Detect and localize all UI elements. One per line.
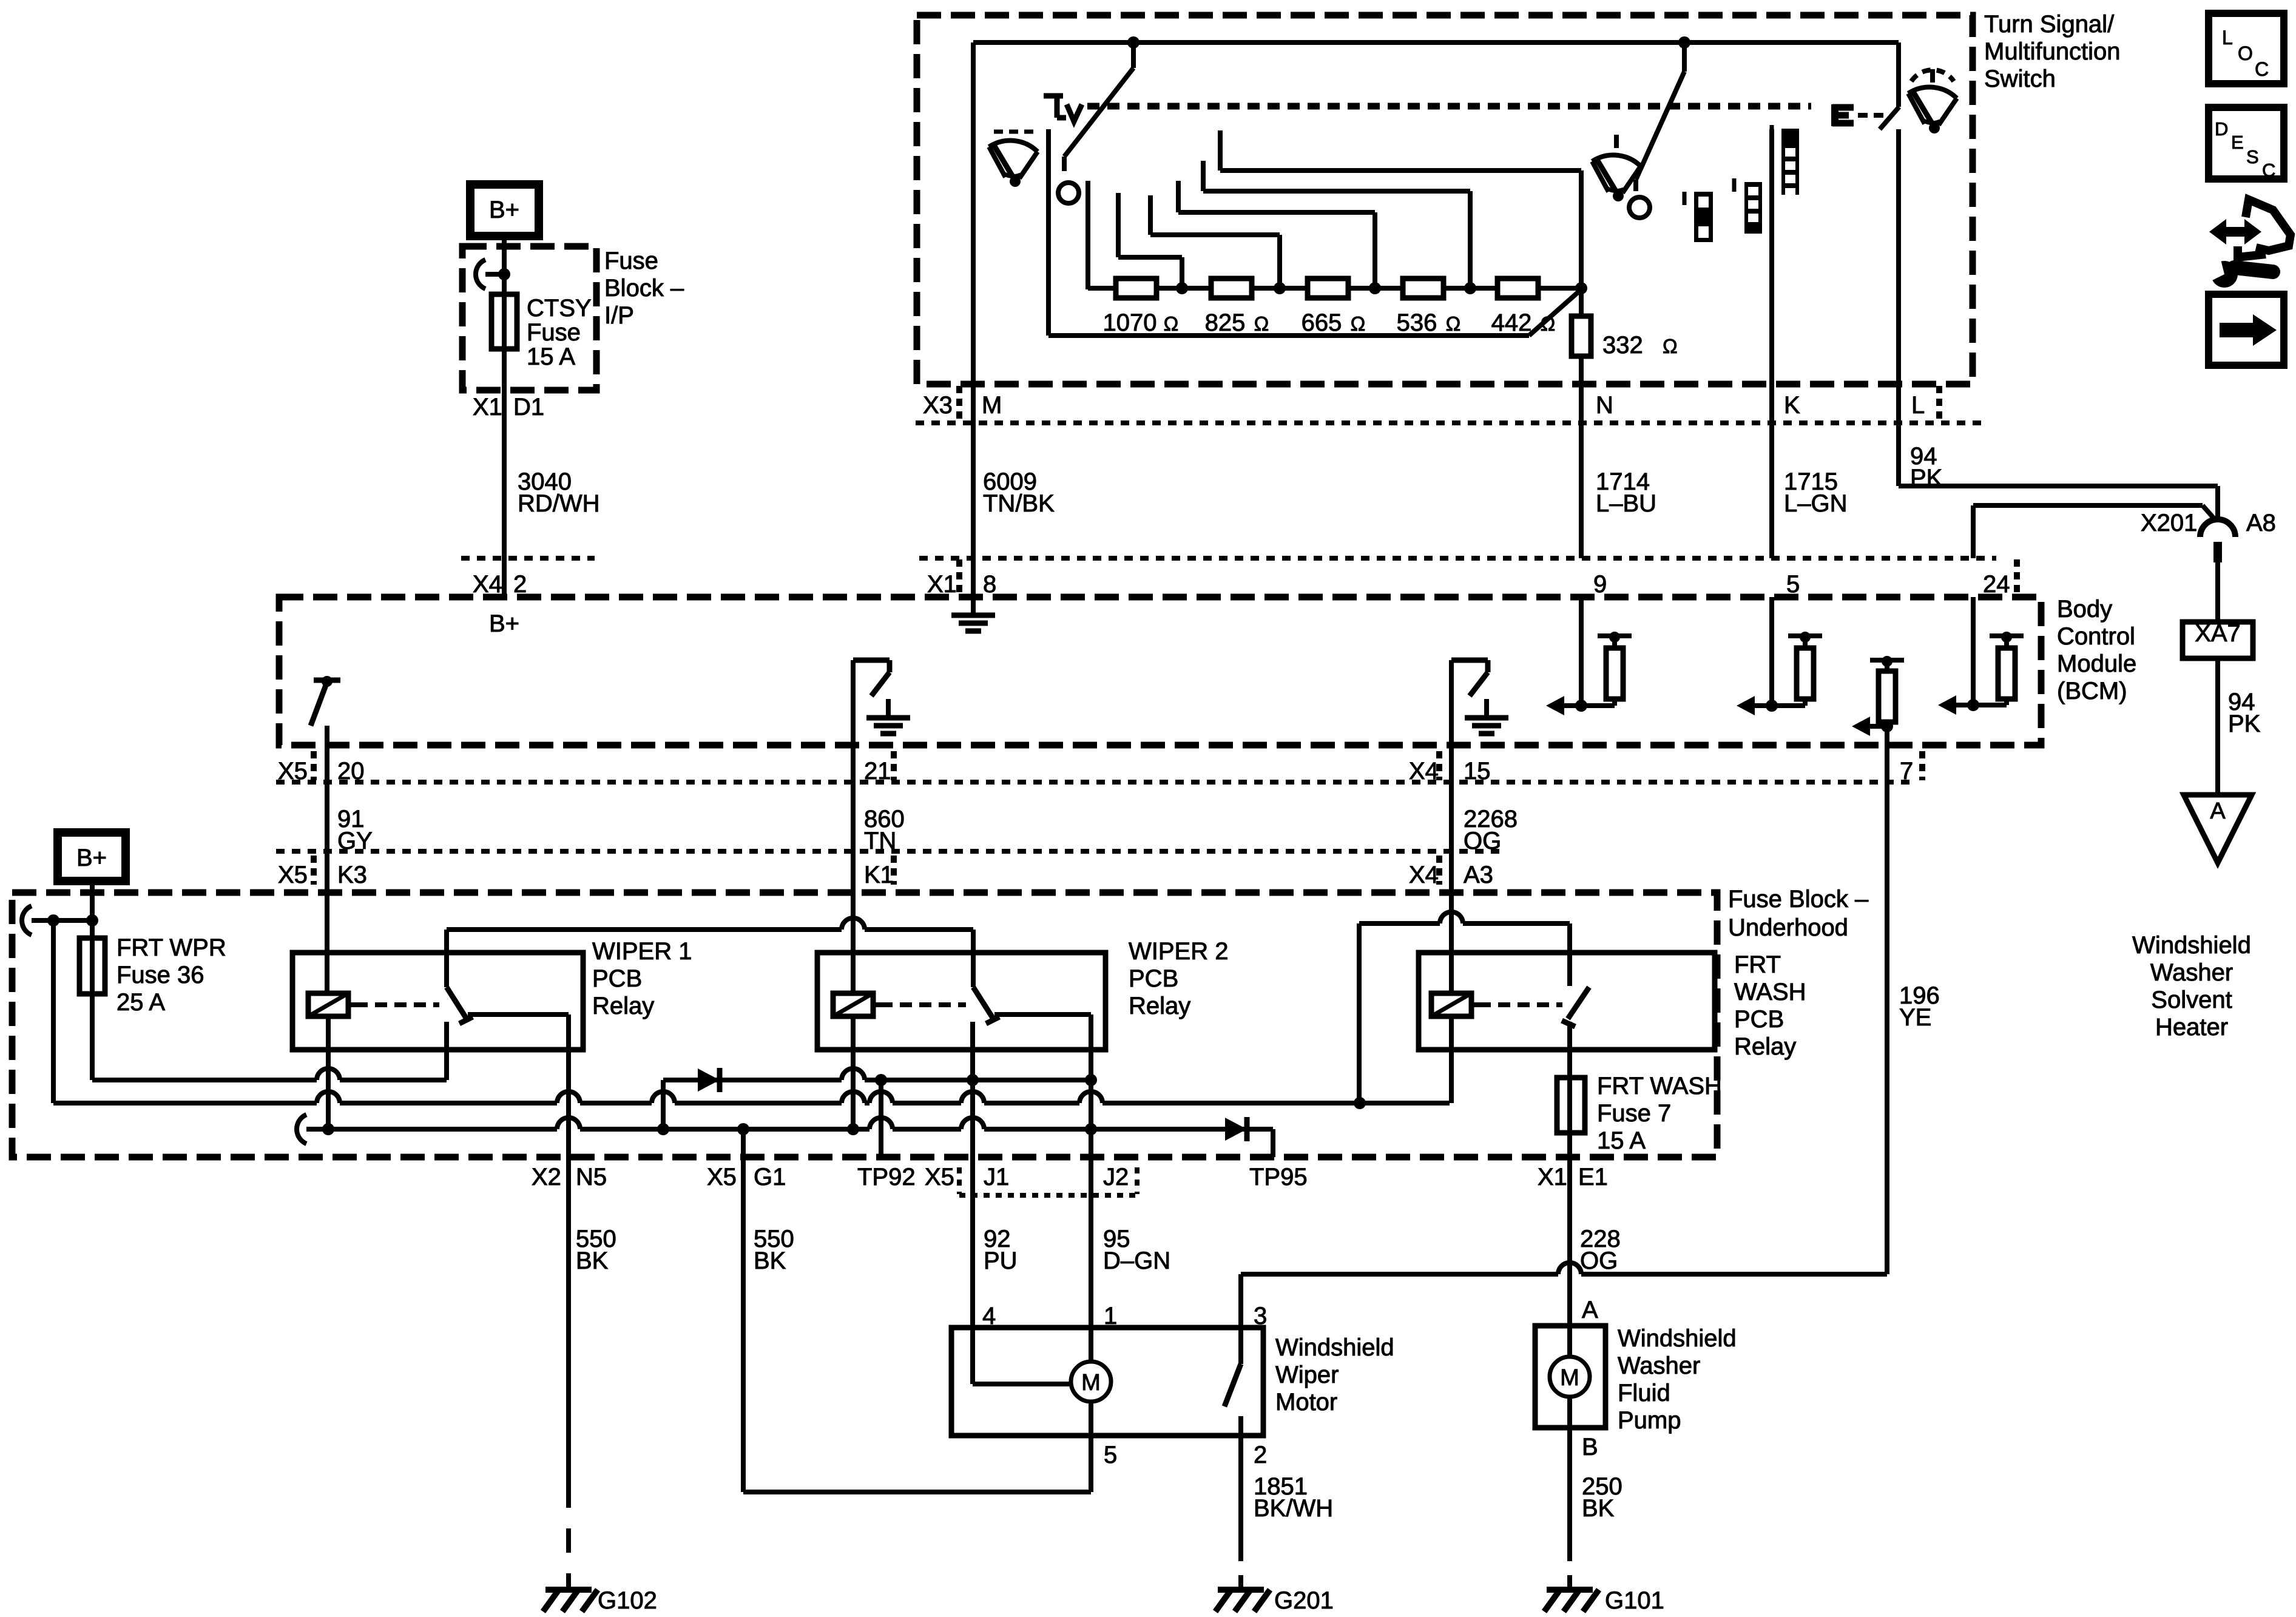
svg-text:PCB: PCB (592, 965, 642, 992)
windshield washer fluid pump box (1535, 1326, 1606, 1428)
wire A3 coil to bus B (1449, 1014, 1454, 1103)
svg-text:B+: B+ (489, 197, 519, 223)
wire motor pin5 (1089, 1436, 1093, 1492)
svg-text:9: 9 (1593, 571, 1607, 598)
connector row X5 K3 / K1 / X4 A3 (276, 851, 1505, 888)
svg-text:Fuse: Fuse (527, 319, 581, 346)
svg-text:M: M (1081, 1370, 1101, 1396)
diode D2 on bus C (1225, 1117, 1247, 1141)
connector row X5 20 / 21 / X4 15 / 7 (276, 751, 1922, 785)
connector row X1 D1 (473, 394, 544, 420)
svg-text:L: L (1911, 392, 1925, 419)
svg-text:A3: A3 (1464, 862, 1493, 888)
wire B+ to fuse block I/P (502, 236, 507, 274)
wire N5 550 BK to G102 (566, 1050, 571, 1575)
BCM input sense pin 9 (1546, 597, 1632, 715)
svg-text:15 A: 15 A (1597, 1127, 1646, 1154)
relay link wire (wiper1 to wiper2 common) (447, 918, 973, 953)
label Fuse Block - I/P (604, 248, 684, 329)
svg-text:BK: BK (754, 1247, 786, 1274)
svg-text:PCB: PCB (1734, 1006, 1784, 1033)
test point TP95 stub (1271, 1129, 1275, 1157)
wire top rail of switch (973, 40, 1899, 45)
connector hook B+ feed (22, 906, 98, 935)
svg-text:B+: B+ (76, 845, 107, 871)
wire J1 92 PU to motor pin4 (970, 1080, 975, 1328)
svg-text:A8: A8 (2246, 510, 2276, 536)
wire label 196 YE (1899, 982, 1940, 1031)
contact circle mist (1629, 197, 1650, 218)
wire diode branch (663, 1068, 1097, 1129)
svg-text:K1: K1 (864, 862, 894, 888)
svg-text:442: 442 (1491, 309, 1532, 336)
ground G102 (543, 1575, 657, 1614)
power symbol B+ (top) (470, 184, 539, 236)
svg-text:15 A: 15 A (527, 343, 575, 370)
svg-text:4: 4 (982, 1303, 996, 1329)
relay WIPER 1 PCB (292, 953, 583, 1050)
resistor 665 ohm (1302, 279, 1366, 336)
svg-text:Body: Body (2057, 596, 2112, 623)
svg-text:X1: X1 (927, 571, 957, 598)
svg-text:Fuse: Fuse (604, 248, 658, 274)
svg-text:J1: J1 (984, 1164, 1009, 1190)
dashed actuation line of rotary switch (1087, 103, 1811, 110)
windshield wiper motor box (951, 1328, 1263, 1436)
relay2 switch (973, 953, 1091, 1080)
svg-text:Ω: Ω (1164, 312, 1179, 335)
wire to XA7 (2215, 562, 2220, 622)
wire label 250 BK (1582, 1473, 1622, 1522)
pump M motor (1550, 1326, 1590, 1428)
wire bus B (B+ rail to frt wash relay) (53, 920, 1450, 1110)
svg-text:Fluid: Fluid (1618, 1380, 1670, 1406)
svg-text:M: M (982, 392, 1002, 419)
label windshield washer fluid pump (1618, 1325, 1737, 1434)
patch A3 through 1522 hop (1449, 907, 1454, 947)
svg-text:L–BU: L–BU (1596, 490, 1656, 517)
BCM input sense pin 24 (1938, 597, 2024, 715)
svg-text:Windshield: Windshield (2132, 932, 2251, 959)
svg-text:CTSY: CTSY (527, 295, 592, 322)
resistor 825 ohm (1205, 279, 1269, 336)
wire label 91 GY (337, 806, 373, 854)
svg-text:3: 3 (1254, 1303, 1267, 1329)
wire label 1851 BK/WH (1254, 1473, 1333, 1522)
svg-text:1070: 1070 (1103, 309, 1157, 336)
svg-text:PK: PK (2228, 711, 2261, 737)
BCM switch S1 (311, 676, 340, 745)
wire K3 coil to bus C (326, 1016, 331, 1129)
svg-text:Windshield: Windshield (1618, 1325, 1737, 1352)
svg-text:WASH: WASH (1734, 979, 1806, 1005)
svg-text:C: C (2255, 58, 2269, 80)
svg-text:B+: B+ (489, 610, 519, 637)
svg-text:X1: X1 (1538, 1164, 1567, 1190)
svg-text:2: 2 (1254, 1442, 1267, 1468)
wire A3 column (1449, 745, 1454, 991)
svg-text:D: D (2215, 118, 2228, 140)
wire G1 550 BK to motor pin5 (743, 1129, 1091, 1492)
switch tap contact C (1150, 195, 1286, 294)
resistor 442 ohm (1491, 279, 1556, 336)
svg-text:Fuse 7: Fuse 7 (1597, 1100, 1671, 1127)
wire K3 column (325, 745, 329, 993)
relay WIPER 2 PCB (817, 953, 1106, 1050)
svg-text:K: K (1784, 392, 1800, 419)
wire label 860 TN (864, 806, 905, 854)
svg-text:A: A (2210, 798, 2226, 824)
svg-text:Ω: Ω (1663, 335, 1678, 357)
contact block 3 (1772, 125, 1799, 197)
body control module dashed box (279, 597, 2041, 745)
svg-text:M: M (1560, 1365, 1579, 1391)
svg-text:N5: N5 (576, 1164, 607, 1190)
svg-text:Solvent: Solvent (2151, 987, 2232, 1013)
svg-text:X2: X2 (532, 1164, 561, 1190)
label Turn Signal/Multifunction Switch (1984, 11, 2121, 92)
relay1 switch (447, 953, 569, 1080)
svg-text:X5: X5 (925, 1164, 954, 1190)
svg-text:D–GN: D–GN (1103, 1247, 1170, 1274)
wire 196 YE horizontal to park switch (1241, 1263, 1887, 1281)
svg-text:L–GN: L–GN (1784, 490, 1848, 517)
wire label 92 PU (984, 1226, 1018, 1274)
svg-text:S: S (2246, 146, 2259, 167)
ground G201 (1215, 1575, 1334, 1614)
svg-text:TN/BK: TN/BK (983, 490, 1055, 517)
resistor 1070 ohm (1103, 279, 1179, 336)
label Fuse Block - Underhood (1728, 886, 1869, 941)
switch arm 1 (wiper mode selector) (1064, 36, 1140, 171)
fuse FRT WPR 36 25A (79, 920, 226, 1080)
svg-text:Ω: Ω (1541, 312, 1556, 335)
svg-text:Windshield: Windshield (1275, 1334, 1394, 1361)
contact block 1 (1684, 192, 1713, 242)
pump pin B (1582, 1434, 1598, 1460)
fuse block underhood dashed box (12, 893, 1717, 1157)
wire label 2268 OG (1464, 806, 1518, 854)
svg-text:Ω: Ω (1254, 312, 1269, 335)
svg-text:2: 2 (513, 571, 527, 598)
svg-text:X5: X5 (278, 862, 308, 888)
svg-text:Multifunction: Multifunction (1984, 38, 2121, 65)
rotary rail loop (1048, 129, 1581, 336)
diode D1 (698, 1068, 720, 1092)
svg-text:332: 332 (1602, 332, 1643, 359)
svg-text:5: 5 (1104, 1442, 1117, 1468)
relay FRT WASH PCB (1419, 953, 1715, 1050)
svg-text:XA7: XA7 (2195, 620, 2241, 647)
svg-text:Control: Control (2057, 623, 2135, 650)
fuse CTSY 15A (491, 274, 592, 558)
wire M rail (left vertical) (971, 42, 976, 614)
svg-text:E1: E1 (1578, 1164, 1608, 1190)
connector XA7 (2183, 620, 2253, 658)
svg-text:FRT: FRT (1734, 951, 1781, 978)
svg-text:K3: K3 (337, 862, 367, 888)
svg-text:WIPER 2: WIPER 2 (1129, 938, 1228, 965)
svg-text:Heater: Heater (2155, 1014, 2228, 1041)
washer switch E contact (1832, 104, 1883, 126)
svg-text:Wiper: Wiper (1275, 1362, 1339, 1388)
wire label 228 OG (1580, 1226, 1621, 1274)
wire bus A (fuse to wiper1 relay) (92, 1068, 447, 1087)
svg-text:YE: YE (1899, 1004, 1931, 1031)
svg-text:BK: BK (576, 1247, 609, 1274)
svg-text:25 A: 25 A (116, 989, 165, 1016)
resistor 536 ohm (1397, 279, 1461, 336)
svg-text:Pump: Pump (1618, 1407, 1681, 1434)
svg-text:X5: X5 (707, 1164, 737, 1190)
svg-text:Motor: Motor (1275, 1389, 1337, 1416)
svg-text:N: N (1596, 392, 1613, 419)
motor pin labels 5 2 (1104, 1442, 1267, 1468)
svg-text:PCB: PCB (1129, 965, 1178, 992)
contact block 2 (1734, 178, 1762, 234)
switch tap contact E (1203, 161, 1476, 294)
svg-text:X4: X4 (1409, 862, 1439, 888)
svg-text:536: 536 (1397, 309, 1437, 336)
motor pin labels 4 1 3 (982, 1303, 1267, 1329)
svg-text:X4: X4 (473, 571, 502, 598)
svg-text:8: 8 (983, 571, 996, 598)
svg-text:WIPER 1: WIPER 1 (592, 938, 692, 965)
relay3 switch (1562, 923, 1589, 1078)
connector row X3 M N K L (916, 386, 1984, 423)
washer switch arm (1880, 42, 1899, 129)
svg-text:Ω: Ω (1446, 312, 1461, 335)
contact circle OFF (1058, 183, 1079, 203)
svg-text:X1: X1 (473, 394, 502, 420)
svg-text:G101: G101 (1605, 1587, 1664, 1614)
motor M winding (973, 1328, 1111, 1436)
svg-text:PU: PU (984, 1247, 1018, 1274)
svg-text:665: 665 (1302, 309, 1342, 336)
wire K1 column (851, 745, 856, 993)
wire label 1714 L-BU (1596, 468, 1656, 517)
wire K1 coil to bus C (851, 1016, 856, 1129)
svg-text:OG: OG (1580, 1247, 1618, 1274)
wire L column (1896, 129, 1901, 486)
svg-text:L: L (2222, 27, 2233, 49)
pump pin A (1582, 1297, 1598, 1323)
svg-text:Module: Module (2057, 650, 2136, 677)
BCM switch S3 with ground (1451, 660, 1508, 745)
wire label 1715 L-GN (1784, 468, 1848, 517)
inline connector X201 A8 (2141, 510, 2276, 562)
svg-text:G102: G102 (598, 1587, 657, 1614)
svg-text:Washer: Washer (1618, 1352, 1700, 1379)
wire bus C (coil return rail) (297, 1115, 1273, 1144)
delay symbol (intermittent wiper timer) (1044, 96, 1082, 121)
BCM switch S2 with ground (853, 660, 910, 745)
label WIPER 1 PCB Relay (592, 938, 692, 1019)
wire K column in switch (1769, 129, 1774, 558)
svg-text:J2: J2 (1103, 1164, 1129, 1190)
svg-text:RD/WH: RD/WH (518, 490, 600, 517)
svg-text:X3: X3 (923, 392, 953, 419)
fuse block I/P dashed box (462, 246, 596, 390)
svg-text:Turn Signal/: Turn Signal/ (1984, 11, 2115, 38)
svg-text:Fuse Block –: Fuse Block – (1728, 886, 1869, 913)
resistor 332 ohm (1572, 289, 1678, 558)
motor park switch (1224, 1274, 1241, 1436)
patch K1 through 1532 hop (851, 915, 856, 947)
connector row X1 8 / 9 / 5 / 24 (919, 558, 2017, 598)
BCM input sense pin 5 (1737, 597, 1822, 715)
wire label 6009 TN/BK (983, 468, 1055, 517)
svg-text:Underhood: Underhood (1728, 914, 1848, 941)
icon box arrow right (2209, 294, 2284, 365)
label Body Control Module (BCM) (2057, 596, 2136, 704)
svg-text:I/P: I/P (604, 302, 634, 329)
switch tap contact B (1118, 193, 1188, 294)
svg-text:Washer: Washer (2150, 959, 2233, 986)
icon arrows and wrench (2206, 200, 2291, 288)
icon box DESC (2209, 107, 2284, 181)
svg-text:(BCM): (BCM) (2057, 678, 2127, 704)
wire label 3040 RD/WH (518, 468, 600, 517)
wiper icon (low/high) (1592, 135, 1641, 201)
switch arm 2 (mist) (1636, 36, 1690, 191)
svg-text:24: 24 (1983, 571, 2010, 598)
wiper icon (intermittent, left) (989, 132, 1038, 187)
label windshield wiper motor (1275, 1334, 1394, 1416)
ground G101 (1544, 1575, 1664, 1614)
BCM output pin 7 (196 YE driver) (1852, 656, 1904, 745)
wire label 94 PK (L) (1910, 443, 1943, 491)
label windshield washer solvent heater (2132, 932, 2251, 1041)
wire 250 BK to G101 (1567, 1428, 1572, 1578)
washer icon (1908, 69, 1957, 133)
wire 94 PK branch to BCM 24 (1973, 505, 2216, 558)
svg-text:X201: X201 (2141, 510, 2197, 536)
wire label 550 BK (N5) (576, 1226, 616, 1274)
test point TP92 stub (879, 1080, 883, 1157)
svg-text:E: E (2231, 132, 2244, 153)
connector hook at CTSY fuse feed (476, 260, 510, 289)
svg-text:BK/WH: BK/WH (1254, 1495, 1333, 1522)
svg-text:BK: BK (1582, 1495, 1615, 1522)
label FRT WASH PCB Relay (1734, 951, 1806, 1060)
wire B+ into fuse block (90, 881, 95, 920)
svg-text:B: B (1582, 1434, 1598, 1460)
svg-text:G201: G201 (1274, 1587, 1334, 1614)
svg-text:825: 825 (1205, 309, 1246, 336)
svg-text:Relay: Relay (1734, 1033, 1796, 1060)
patch 228 OG through hop (1567, 1259, 1572, 1292)
switch tap contact F (to 332 ohm) (1220, 130, 1587, 294)
wire label 95 D-GN (1103, 1226, 1170, 1274)
svg-text:TP92: TP92 (857, 1164, 916, 1190)
turn signal / multifunction switch dashed box (917, 15, 1973, 384)
terminal triangle A (windshield washer solvent heater) (2184, 795, 2252, 863)
wire 1851 BK/WH to G201 (1238, 1436, 1243, 1578)
svg-text:1: 1 (1104, 1303, 1117, 1329)
switch tap contact D (1178, 181, 1381, 294)
connector row X4 2 (461, 558, 595, 598)
wire into BCM, node B+ (489, 558, 519, 637)
svg-text:TP95: TP95 (1249, 1164, 1308, 1190)
switch tap contact A (1086, 181, 1090, 289)
power symbol B+ (left) (58, 832, 126, 881)
wire label 94 PK (heater) (2218, 658, 2261, 795)
wire 196 YE column (1885, 745, 1889, 1274)
label WIPER 2 PCB Relay (1129, 938, 1228, 1019)
svg-text:Ω: Ω (1351, 312, 1366, 335)
wire label 550 BK (G1) (754, 1226, 794, 1274)
wire J2 95 D-GN to motor pin1 (1089, 1080, 1093, 1328)
connector row X2 N5 / X5 G1 / TP92 / X5 J1 J2 / TP95 / X1 E1 (532, 1164, 1608, 1195)
svg-text:Relay: Relay (592, 993, 654, 1019)
resistor chain wire (1088, 286, 1581, 291)
svg-text:5: 5 (1786, 571, 1800, 598)
svg-text:A: A (1582, 1297, 1598, 1323)
svg-text:D1: D1 (513, 394, 544, 420)
svg-text:C: C (2262, 160, 2275, 181)
svg-text:G1: G1 (754, 1164, 786, 1190)
svg-text:O: O (2238, 42, 2253, 64)
fuse FRT WASH 7 15A (1557, 1073, 1722, 1326)
svg-text:Relay: Relay (1129, 993, 1190, 1019)
wire 94 PK to X201 (1899, 486, 2218, 521)
svg-text:FRT WPR: FRT WPR (116, 934, 226, 961)
icon box LOC (2209, 13, 2284, 84)
svg-text:Fuse 36: Fuse 36 (116, 962, 204, 988)
svg-text:Block –: Block – (604, 275, 684, 302)
ground inside BCM (pin 8) (951, 615, 995, 631)
svg-text:FRT WASH: FRT WASH (1597, 1073, 1722, 1099)
wire 1522 link to frt wash relay (1359, 912, 1570, 1103)
svg-text:Switch: Switch (1984, 66, 2056, 92)
